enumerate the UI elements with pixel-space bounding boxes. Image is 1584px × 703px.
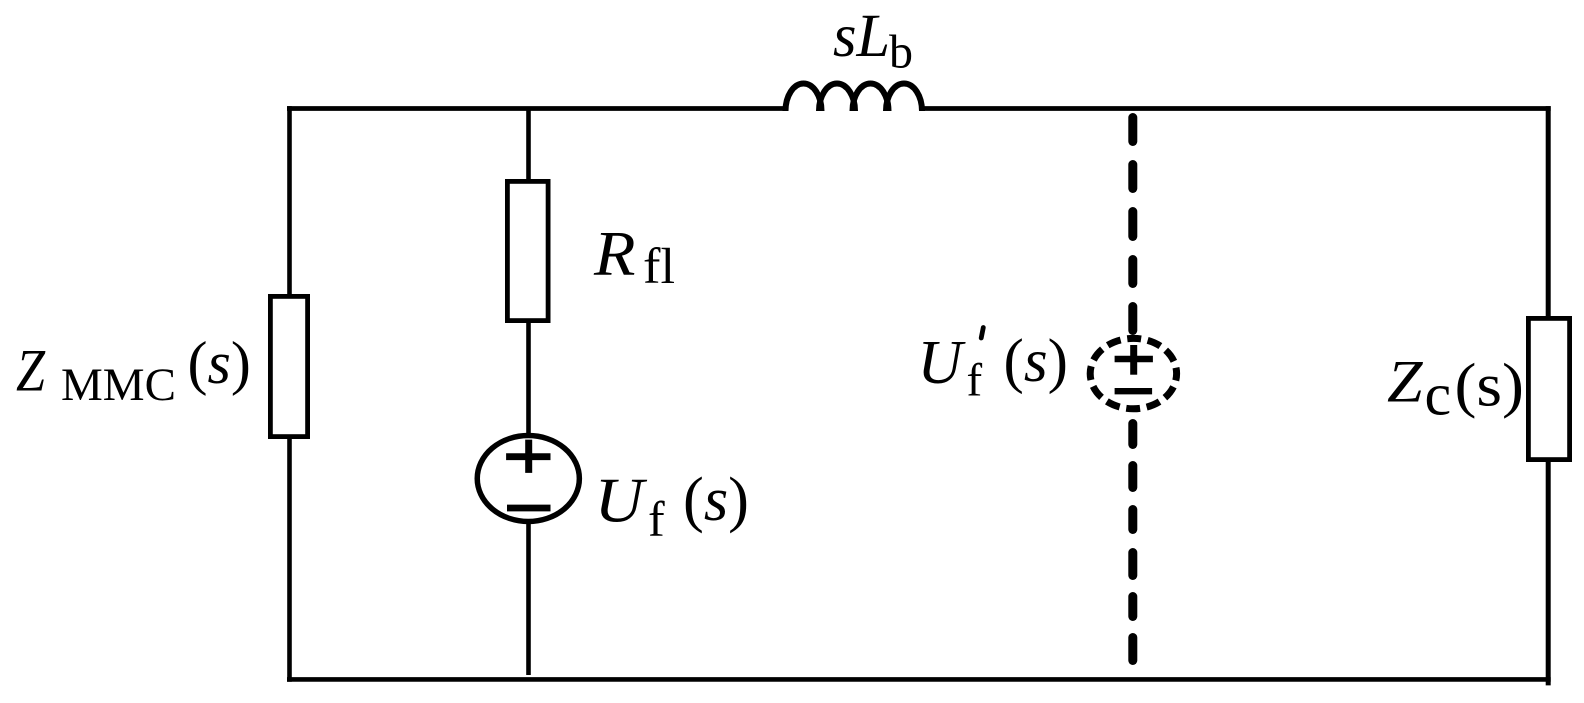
svg-text:f: f [967,355,983,407]
impedance Zc box [1528,318,1569,459]
wire: top bus right segment [920,106,1551,111]
wire: top bus left segment [287,106,786,111]
voltage source Uf' dashed circle [1090,338,1176,408]
svg-text:Z: Z [16,338,46,404]
wire: right branch upper [1546,106,1551,318]
svg-text:c: c [1425,362,1452,428]
svg-text:(s): (s) [1455,352,1525,420]
svg-text:(s): (s) [683,466,749,534]
svg-text:fl: fl [643,239,675,295]
svg-text:U: U [918,329,967,397]
wire: Rfl to Uf source [526,321,531,434]
inductor Lb [786,84,923,112]
resistor Rfl box [507,181,548,320]
impedance ZMMC box [270,296,307,436]
wire: left branch upper [287,106,292,296]
svg-text:b: b [889,26,913,79]
Uf' minus sign [1115,388,1153,394]
dashed net: lower segment [1128,424,1137,661]
svg-text:MMC: MMC [61,359,176,411]
Uf plus sign [506,453,550,460]
wire: bottom bus [287,677,1551,682]
svg-text:Z: Z [1387,349,1423,415]
wire: Rfl branch top [526,109,531,182]
wire: left branch lower [287,437,292,682]
wire: Uf source to bottom bus [526,524,531,675]
dashed net: upper segment [1128,118,1137,331]
svg-text:sL: sL [833,2,890,70]
voltage source Uf circle [477,436,579,522]
Uf' plus sign [1115,356,1153,362]
wire: right branch lower [1546,460,1551,685]
svg-text:(s): (s) [188,330,251,396]
Uf minus sign [507,505,551,512]
svg-text:f: f [648,491,665,547]
svg-text:U: U [595,466,648,536]
svg-text:R: R [593,219,636,289]
svg-text:(s): (s) [1004,328,1068,395]
prime mark of Uf' [981,328,983,339]
